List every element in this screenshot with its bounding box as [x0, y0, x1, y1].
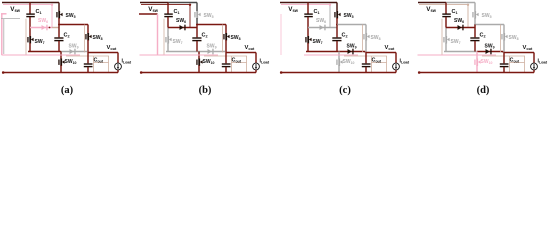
- label C1: [174, 9, 180, 15]
- wire SW8 top lead: [503, 25, 505, 34]
- label SW5: [344, 13, 354, 19]
- wire C1 bottom lead: [167, 17, 169, 28]
- svg-text:SW10: SW10: [65, 59, 77, 65]
- label C1: [36, 9, 42, 15]
- wire tan ghost box left: [509, 56, 511, 73]
- svg-text:SW6: SW6: [316, 18, 326, 24]
- wire tan ghost column: [362, 25, 364, 53]
- wire tan ghost box right: [108, 56, 110, 73]
- svg-text:ILoad: ILoad: [122, 59, 132, 65]
- svg-text:(c): (c): [339, 85, 351, 96]
- wire SW7 to mid rail: [307, 43, 309, 52]
- label Iload: [260, 59, 270, 65]
- svg-text:SW5: SW5: [344, 13, 354, 19]
- wire C2 bottom lead: [58, 41, 60, 52]
- label Iload: [400, 59, 410, 65]
- transistor SW8: [501, 33, 507, 41]
- label SW9: [69, 44, 79, 50]
- svg-text:SW6: SW6: [38, 18, 48, 24]
- wire SW8 top lead: [225, 25, 227, 34]
- label Vout: [107, 45, 118, 51]
- wire left gray stub: [1, 19, 20, 54]
- wire SW6 branch: [30, 27, 59, 29]
- caption (a): [61, 85, 74, 96]
- svg-text:SW9: SW9: [347, 44, 357, 50]
- svg-text:Vsw: Vsw: [148, 6, 158, 13]
- svg-text:C1: C1: [174, 9, 180, 15]
- label SW8: [231, 35, 241, 41]
- wire phase sub-rail: [3, 4, 52, 6]
- node bottom rail terminal: [140, 71, 143, 74]
- capacitor Cout: [84, 63, 93, 67]
- wire bottom rail: [418, 72, 534, 74]
- wire SW5 top lead: [474, 3, 476, 12]
- label Vsw: [10, 6, 20, 13]
- wire tan ghost box left: [231, 56, 233, 73]
- wire C1 top lead: [29, 3, 31, 14]
- wire top rail left (Vsw node): [2, 2, 30, 4]
- svg-text:Vout: Vout: [523, 45, 534, 51]
- node bottom rail terminal: [418, 71, 421, 74]
- svg-text:C2: C2: [202, 33, 208, 39]
- wire Vout drop: [395, 53, 397, 64]
- wire Cout top lead: [365, 53, 367, 64]
- svg-text:SW5: SW5: [482, 13, 492, 19]
- transistor SW9: [486, 49, 492, 55]
- wire SW8 top lead: [365, 25, 367, 34]
- wire tan vertical x26: [25, 19, 27, 55]
- wire tan ghost box right: [386, 56, 388, 73]
- label Vout: [385, 45, 396, 51]
- transistor SW7: [443, 36, 449, 44]
- svg-text:ILoad: ILoad: [400, 59, 410, 65]
- wire SW10 top lead: [198, 52, 200, 59]
- svg-text:SW6: SW6: [176, 18, 186, 24]
- wire Cout bottom lead: [87, 67, 89, 73]
- node sub-rail corner: [189, 4, 191, 6]
- node sub-rail corner: [467, 4, 469, 6]
- label SW10: [343, 59, 355, 65]
- label SW7: [313, 39, 323, 45]
- wire SW7 to mid rail: [29, 43, 31, 52]
- svg-text:Vsw: Vsw: [10, 6, 20, 13]
- wire mid rail left: [166, 51, 199, 53]
- wire Vout rail: [366, 52, 396, 54]
- wire left vertical 1: [280, 14, 282, 55]
- wire SW5 bottom lead: [336, 18, 338, 25]
- wire SW8 bottom lead: [503, 40, 505, 53]
- wire tan ghost column: [84, 25, 86, 53]
- svg-text:SW10: SW10: [203, 59, 215, 65]
- transistor SW10: [474, 59, 480, 67]
- wire phase rail y55: [418, 54, 497, 56]
- wire SW10 top lead: [60, 52, 62, 59]
- svg-text:Vsw: Vsw: [426, 6, 436, 13]
- capacitor C2: [332, 37, 341, 41]
- wire Cout bottom lead: [225, 67, 227, 73]
- capacitor Cout: [222, 63, 231, 67]
- label Iload: [122, 59, 132, 65]
- wire SW7 to mid rail: [445, 43, 447, 52]
- wire bottom rail: [2, 72, 118, 74]
- wire C2 bottom lead: [196, 41, 198, 52]
- wire phase rail y55: [140, 54, 219, 56]
- transistor SW8: [223, 33, 229, 41]
- wire phase sub-rail: [141, 4, 190, 6]
- current source Iload: [115, 63, 122, 70]
- svg-text:SW8: SW8: [371, 35, 381, 41]
- wire C1 to SW7: [445, 28, 447, 37]
- wire SW5 top lead: [58, 3, 60, 12]
- svg-text:SW7: SW7: [451, 39, 461, 45]
- wire SW10 bottom lead: [198, 65, 200, 72]
- transistor SW10: [196, 59, 202, 67]
- svg-text:SW9: SW9: [69, 44, 79, 50]
- wire C2 top lead: [336, 25, 338, 38]
- wire SW8 bottom lead: [87, 40, 89, 53]
- label SW7: [35, 39, 45, 45]
- label SW10: [203, 59, 215, 65]
- svg-text:C1: C1: [452, 9, 458, 15]
- transistor SW6: [42, 25, 48, 31]
- wire tan ghost column: [500, 25, 502, 53]
- svg-text:Cout: Cout: [510, 58, 520, 64]
- caption (b): [199, 85, 212, 96]
- wire tan rail: [482, 55, 525, 57]
- wire tan ghost column: [222, 25, 224, 53]
- wire phase sub-rail drop: [467, 5, 469, 28]
- capacitor C2: [54, 37, 63, 41]
- wire mid rail right: [61, 51, 87, 53]
- wire mid-to-out connector: [502, 52, 504, 53]
- wire tan ghost box mid: [94, 62, 109, 64]
- wire tan ghost box mid: [372, 62, 387, 64]
- wire tan vertical x26: [163, 19, 165, 55]
- wire SW8 bottom lead: [365, 40, 367, 53]
- panel (b) switched-capacitor converter phase: [139, 3, 269, 96]
- label SW6: [38, 18, 48, 24]
- transistor SW6: [458, 25, 464, 31]
- capacitor C1: [26, 13, 35, 17]
- label Vsw: [148, 6, 158, 13]
- wire mid rail right: [477, 51, 503, 53]
- svg-text:SW8: SW8: [509, 35, 519, 41]
- wire Iload bottom lead: [117, 70, 119, 73]
- node bottom rail terminal: [280, 71, 283, 74]
- wire C2 bottom lead: [336, 41, 338, 52]
- current source Iload: [393, 63, 400, 70]
- label SW10: [481, 59, 493, 65]
- wire C1 to SW7: [167, 28, 169, 37]
- wire C1 top lead: [445, 3, 447, 14]
- wire SW10 bottom lead: [476, 65, 478, 72]
- wire C1 bottom lead: [29, 17, 31, 28]
- wire C2 top lead: [474, 25, 476, 38]
- transistor SW10: [336, 59, 342, 67]
- svg-text:SW5: SW5: [204, 13, 214, 19]
- label SW5: [66, 13, 76, 19]
- wire left vertical 1: [157, 14, 159, 55]
- wire tan ghost box right: [524, 56, 526, 73]
- label SW6: [176, 18, 186, 24]
- transistor SW6: [180, 25, 186, 31]
- wire Vsw stub: [1, 13, 7, 15]
- label SW6: [316, 18, 326, 24]
- label Iload: [538, 59, 548, 65]
- wire C2 bottom lead: [474, 41, 476, 52]
- caption (c): [339, 85, 351, 96]
- wire C1 bottom lead: [307, 17, 309, 28]
- wire C1 bottom lead: [445, 17, 447, 28]
- label SW6: [454, 18, 464, 24]
- wire phase rail y55: [2, 54, 81, 56]
- wire tan ghost box left: [371, 56, 373, 73]
- svg-text:(d): (d): [477, 85, 490, 96]
- label SW8: [93, 35, 103, 41]
- wire mid rail left: [444, 51, 477, 53]
- wire Vsw stub: [139, 13, 158, 15]
- label Vout: [523, 45, 534, 51]
- svg-text:C1: C1: [314, 9, 320, 15]
- transistor SW7: [165, 36, 171, 44]
- capacitor C1: [164, 13, 173, 17]
- label Vsw: [288, 6, 298, 13]
- svg-text:Vout: Vout: [385, 45, 396, 51]
- label C2: [202, 33, 208, 39]
- svg-text:SW6: SW6: [454, 18, 464, 24]
- svg-text:SW9: SW9: [485, 44, 495, 50]
- wire tan ghost box mid: [232, 62, 247, 64]
- node sub-rail corner: [51, 4, 53, 6]
- label Cout: [94, 58, 104, 64]
- wire phase sub-rail: [281, 4, 330, 6]
- label SW5: [204, 13, 214, 19]
- wire SW5 top lead: [196, 3, 198, 12]
- label Vout: [245, 45, 256, 51]
- label SW9: [207, 44, 217, 50]
- label SW7: [173, 39, 183, 45]
- wire Cout top lead: [225, 53, 227, 64]
- wire SW10 bottom lead: [338, 65, 340, 72]
- wire bottom rail: [280, 72, 396, 74]
- label SW8: [509, 35, 519, 41]
- wire left vertical 1: [1, 14, 3, 55]
- wire SW6 branch: [446, 27, 475, 29]
- svg-text:SW7: SW7: [35, 39, 45, 45]
- wire Iload bottom lead: [395, 70, 397, 73]
- wire mid rail left: [306, 51, 339, 53]
- wire Cout top lead: [87, 53, 89, 64]
- svg-text:Vout: Vout: [245, 45, 256, 51]
- transistor SW9: [208, 49, 214, 55]
- wire Vout rail: [226, 52, 256, 54]
- transistor SW10: [58, 59, 64, 67]
- capacitor C1: [442, 13, 451, 17]
- transistor SW9: [348, 49, 354, 55]
- wire top rail right (to SW5): [446, 2, 475, 4]
- wire top rail right (to SW5): [30, 2, 59, 4]
- wire top rail left (Vsw node): [140, 2, 168, 4]
- wire Cout top lead: [503, 53, 505, 64]
- wire mid rail left: [28, 51, 61, 53]
- capacitor Cout: [362, 63, 371, 67]
- svg-text:SW9: SW9: [207, 44, 217, 50]
- label Cout: [510, 58, 520, 64]
- label SW7: [451, 39, 461, 45]
- wire Iload bottom lead: [255, 70, 257, 73]
- wire tan rail: [344, 55, 387, 57]
- label SW9: [347, 44, 357, 50]
- wire Cout bottom lead: [365, 67, 367, 73]
- wire phase sub-rail drop: [329, 5, 331, 28]
- transistor SW8: [85, 33, 91, 41]
- wire C1 to SW7: [29, 28, 31, 37]
- wire phase sub-rail drop: [51, 5, 53, 28]
- transistor SW5: [472, 11, 478, 19]
- wire Vout drop: [533, 53, 535, 64]
- svg-text:Vout: Vout: [107, 45, 118, 51]
- wire Iload bottom lead: [533, 70, 535, 73]
- wire SW7 to mid rail: [167, 43, 169, 52]
- node SW5-C2-SW8 junction: [58, 24, 60, 26]
- wire Vout drop: [255, 53, 257, 64]
- svg-text:Vsw: Vsw: [288, 6, 298, 13]
- svg-text:SW10: SW10: [343, 59, 355, 65]
- wire SW8 top lead: [87, 25, 89, 34]
- label C2: [64, 33, 70, 39]
- transistor SW8: [363, 33, 369, 41]
- node SW6 terminal: [49, 27, 51, 29]
- label SW10: [65, 59, 77, 65]
- label C1: [314, 9, 320, 15]
- svg-text:SW10: SW10: [481, 59, 493, 65]
- node bottom rail terminal: [2, 71, 5, 74]
- label C1: [452, 9, 458, 15]
- transistor SW6: [320, 25, 326, 31]
- wire tan vertical x26: [441, 19, 443, 55]
- transistor SW7: [305, 36, 311, 44]
- wire C1 top lead: [167, 3, 169, 14]
- svg-text:Cout: Cout: [372, 58, 382, 64]
- current source Iload: [253, 63, 260, 70]
- wire SW10 bottom lead: [60, 65, 62, 72]
- svg-text:C2: C2: [342, 33, 348, 39]
- wire top rail left (Vsw node): [280, 2, 308, 4]
- panel (c) switched-capacitor converter phase: [280, 3, 409, 96]
- label SW5: [482, 13, 492, 19]
- wire SW5 bottom lead: [196, 18, 198, 25]
- wire tan ghost box left: [93, 56, 95, 73]
- capacitor Cout: [500, 63, 509, 67]
- current source Iload: [531, 63, 538, 70]
- wire tan ghost box mid: [510, 62, 525, 64]
- label SW8: [371, 35, 381, 41]
- svg-text:C2: C2: [480, 33, 486, 39]
- svg-text:Cout: Cout: [232, 58, 242, 64]
- wire phase sub-rail drop: [189, 5, 191, 28]
- svg-text:SW7: SW7: [313, 39, 323, 45]
- wire Cout bottom lead: [503, 67, 505, 73]
- node SW5-C2-SW8 junction: [474, 24, 476, 26]
- wire SW5 bottom lead: [474, 18, 476, 25]
- label Cout: [232, 58, 242, 64]
- wire Vout rail: [504, 52, 534, 54]
- wire SW8 bottom lead: [225, 40, 227, 53]
- label SW9: [485, 44, 495, 50]
- svg-text:SW7: SW7: [173, 39, 183, 45]
- wire SW6 branch: [168, 27, 197, 29]
- transistor SW5: [194, 11, 200, 19]
- wire SW10 top lead: [476, 52, 478, 59]
- svg-text:Cout: Cout: [94, 58, 104, 64]
- wire Vout rail: [88, 52, 118, 54]
- wire top rail right (to SW5): [168, 2, 197, 4]
- wire SW10 top lead: [338, 52, 340, 59]
- wire bottom rail: [140, 72, 256, 74]
- wire mid rail right: [199, 51, 225, 53]
- svg-text:(a): (a): [61, 85, 74, 96]
- node sub-rail corner: [329, 4, 331, 6]
- wire mid-to-out connector: [364, 52, 366, 53]
- svg-text:C2: C2: [64, 33, 70, 39]
- transistor SW5: [334, 11, 340, 19]
- capacitor C2: [192, 37, 201, 41]
- capacitor C2: [470, 37, 479, 41]
- wire to SW8: [337, 24, 366, 26]
- wire tan ghost box right: [246, 56, 248, 73]
- wire to SW8: [59, 24, 88, 26]
- wire tan rail: [204, 55, 247, 57]
- panel (d) switched-capacitor converter phase: [418, 3, 548, 96]
- label Vsw: [426, 6, 436, 13]
- panel (a) switched-capacitor converter phase: [1, 3, 131, 96]
- wire Vout drop: [117, 53, 119, 64]
- svg-text:SW8: SW8: [231, 35, 241, 41]
- wire C1 top lead: [307, 3, 309, 14]
- svg-text:C1: C1: [36, 9, 42, 15]
- transistor SW5: [56, 11, 62, 19]
- transistor SW9: [70, 49, 76, 55]
- wire to SW8: [475, 24, 504, 26]
- capacitor C1: [304, 13, 313, 17]
- wire SW5 bottom lead: [58, 18, 60, 25]
- svg-text:ILoad: ILoad: [260, 59, 270, 65]
- wire SW6 branch: [308, 27, 337, 29]
- wire mid rail right: [339, 51, 365, 53]
- label Cout: [372, 58, 382, 64]
- svg-text:SW8: SW8: [93, 35, 103, 41]
- node SW5-C2-SW8 junction: [196, 24, 198, 26]
- wire C2 top lead: [196, 25, 198, 38]
- wire top rail right (to SW5): [308, 2, 337, 4]
- wire SW5 top lead: [336, 3, 338, 12]
- svg-text:ILoad: ILoad: [538, 59, 548, 65]
- wire phase sub-rail: [419, 4, 468, 6]
- wire tan rail: [66, 55, 109, 57]
- node SW5-C2-SW8 junction: [336, 24, 338, 26]
- wire phase rail y55: [304, 54, 358, 56]
- caption (d): [477, 85, 490, 96]
- wire top rail left (Vsw node): [418, 2, 446, 4]
- label C2: [480, 33, 486, 39]
- label C2: [342, 33, 348, 39]
- wire C2 top lead: [58, 25, 60, 38]
- wire to SW8: [197, 24, 226, 26]
- wire C1 to SW7: [307, 28, 309, 37]
- transistor SW7: [27, 36, 33, 44]
- svg-text:SW5: SW5: [66, 13, 76, 19]
- svg-text:(b): (b): [199, 85, 212, 96]
